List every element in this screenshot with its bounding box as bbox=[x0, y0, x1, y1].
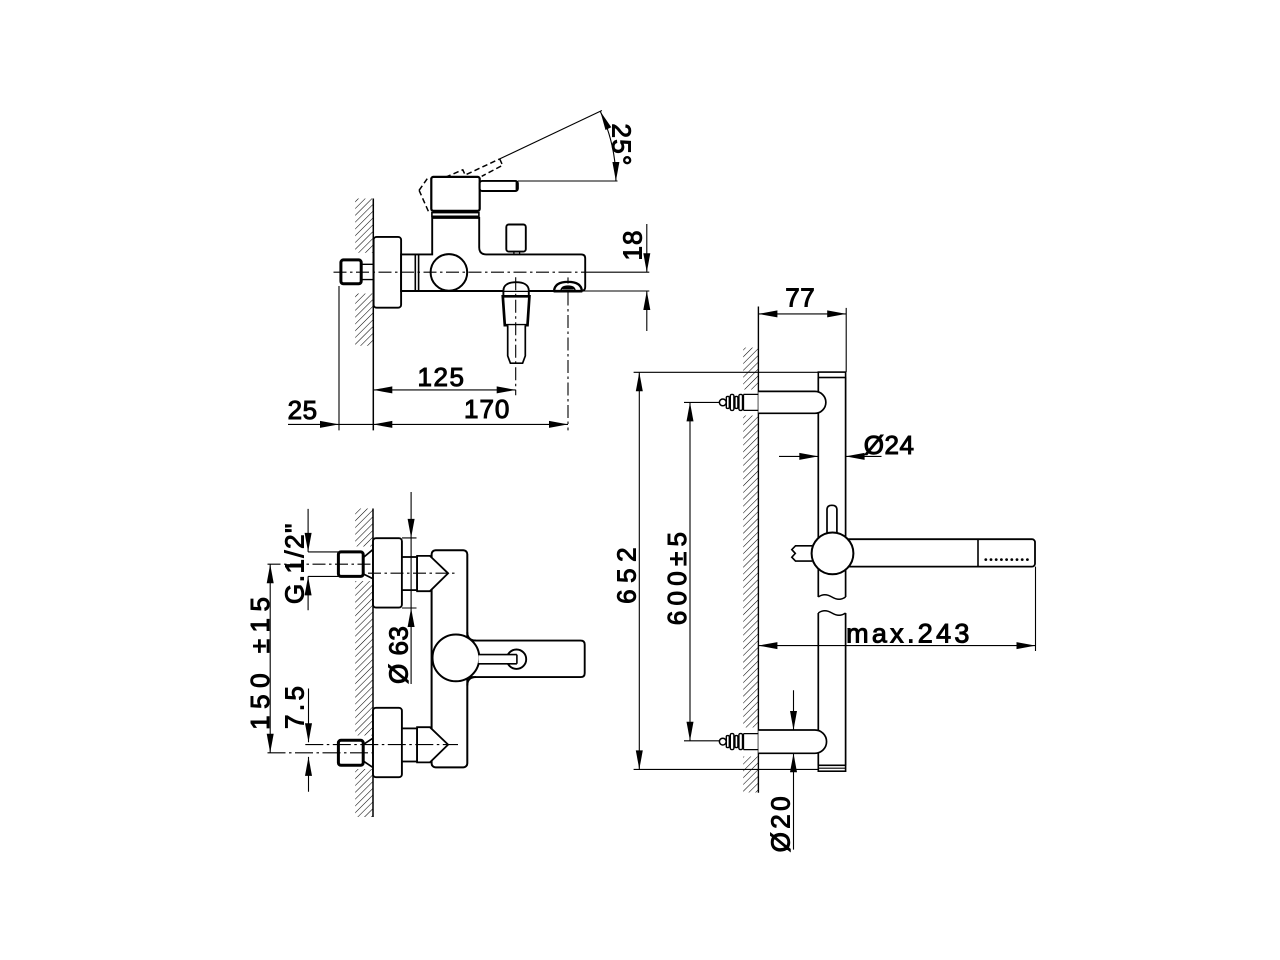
arrow 77 left bbox=[758, 310, 777, 317]
upper body centerline bbox=[368, 572, 458, 574]
upper pipe stub bbox=[402, 557, 417, 590]
arrow angle top bbox=[600, 111, 611, 130]
svg-text:125: 125 bbox=[418, 362, 466, 392]
arrow 150 bottom bbox=[267, 734, 274, 753]
rail left edge bbox=[817, 378, 819, 766]
dimension line 25/170 bbox=[288, 423, 568, 425]
600 extension lines bbox=[684, 402, 719, 740]
hand-shower outlet dome sides bbox=[503, 291, 528, 297]
handle body bbox=[431, 177, 479, 211]
arrow 652 top bbox=[636, 372, 643, 391]
arrow G1/2 top bbox=[305, 533, 312, 552]
upper union nut (view B) bbox=[338, 552, 363, 577]
diverter knob bbox=[506, 225, 526, 252]
valve cap circle bbox=[431, 254, 468, 291]
handle divider line bbox=[977, 539, 979, 566]
dimension line 18 bbox=[646, 224, 648, 331]
7.5 dimension line bbox=[308, 689, 310, 792]
rail top cap bbox=[818, 372, 845, 377]
handle boss circle (view B) bbox=[433, 635, 480, 682]
extension line at union nut bbox=[338, 286, 340, 430]
lower nut centerline bbox=[268, 752, 373, 754]
arrow Ø20 bottom bbox=[790, 753, 797, 772]
horizontal centerline (view A) bbox=[334, 271, 587, 273]
lower screw ridges bbox=[726, 734, 742, 750]
77 right extension line bbox=[845, 308, 847, 372]
upper inlet horn pentagon bbox=[417, 556, 448, 591]
hand-shower vertical centerline bbox=[515, 277, 517, 395]
Ø63 extension lines bbox=[402, 538, 417, 608]
wall hatch top (view B) bbox=[355, 509, 373, 547]
svg-text:25°: 25° bbox=[607, 124, 637, 167]
svg-text:170: 170 bbox=[464, 394, 510, 424]
G1/2 dimension line bbox=[307, 509, 309, 610]
wall hatch bottom (view B) bbox=[355, 769, 373, 817]
arrow Ø63 bottom bbox=[408, 608, 415, 627]
lower inlet horn pentagon bbox=[417, 727, 448, 762]
svg-text:Ø20: Ø20 bbox=[766, 793, 796, 852]
svg-text:G.1/2": G.1/2" bbox=[280, 522, 310, 604]
svg-text:77: 77 bbox=[785, 282, 815, 312]
spout aerator base line bbox=[554, 290, 583, 293]
wall hatch lower (view A) bbox=[355, 294, 373, 346]
lower union nut (view B) bbox=[338, 740, 363, 765]
arrow 150 top bbox=[267, 564, 274, 583]
angle slant line bbox=[500, 111, 602, 159]
aerator vertical centerline bbox=[567, 293, 569, 431]
handle lever bbox=[480, 181, 518, 191]
arrow 170 left bbox=[373, 421, 392, 428]
upper screw ridges bbox=[726, 394, 742, 410]
dimension line 150 bbox=[269, 564, 271, 753]
svg-text:18: 18 bbox=[618, 230, 648, 261]
lower wall plug lines bbox=[744, 734, 759, 750]
arrow max243 left bbox=[758, 642, 777, 649]
dashed rotated handle: lever end and bottom edge bbox=[482, 159, 503, 176]
svg-text:max.243: max.243 bbox=[846, 619, 973, 649]
wall hatch bottom (view C) bbox=[743, 757, 758, 793]
arrow 600 bottom bbox=[687, 722, 694, 741]
svg-text:25: 25 bbox=[288, 395, 318, 425]
supply pipe lower edge bbox=[361, 279, 415, 281]
arrow G1/2 bottom bbox=[305, 576, 312, 595]
Ø24 dimension lines bbox=[779, 455, 882, 457]
652 extension lines bbox=[634, 372, 819, 769]
arrow angle bottom bbox=[612, 162, 619, 181]
upper wall flange (view B) bbox=[373, 538, 402, 607]
angle horizontal line bbox=[518, 180, 618, 182]
dashed rotated handle: bottom-left edge bbox=[419, 190, 429, 213]
dimension line 652 bbox=[638, 372, 640, 769]
G1/2 extension lines bbox=[308, 552, 338, 577]
arrow Ø20 top bbox=[790, 711, 797, 730]
upper screw head circle bbox=[719, 399, 726, 406]
dashed rotated handle: left end edge bbox=[419, 176, 429, 190]
arrow 125 right bbox=[497, 386, 516, 393]
upper inlet taper bbox=[363, 550, 373, 579]
arrow Ø63 top bbox=[408, 519, 415, 538]
bar-body fillets bbox=[467, 632, 476, 685]
aerator centerline tick above dome bbox=[567, 277, 569, 283]
rail right edge bbox=[845, 378, 847, 766]
upper wall plug lines bbox=[744, 394, 759, 410]
dashed rotated handle: body top edge bbox=[446, 159, 500, 177]
svg-text:652: 652 bbox=[612, 541, 642, 604]
supply pipe upper edge bbox=[361, 263, 415, 265]
spout aerator outer dome bbox=[554, 282, 582, 291]
svg-text:7.5: 7.5 bbox=[280, 683, 310, 729]
max243 right extension bbox=[1035, 567, 1037, 651]
svg-text:150 ±15: 150 ±15 bbox=[245, 591, 275, 730]
upper wall bracket arm bbox=[758, 391, 825, 413]
hand-shower outlet cone bbox=[503, 296, 530, 325]
angle arc bbox=[600, 111, 616, 181]
lever escutcheon bar (view B) bbox=[466, 641, 585, 678]
lower wall bracket arm bbox=[758, 730, 826, 753]
arrow 25 right bbox=[320, 421, 339, 428]
lever knob small circle bbox=[507, 650, 526, 669]
mixer body (view B) bbox=[432, 550, 468, 767]
eccentric union nut (view A) bbox=[341, 260, 361, 284]
extension lines for 18 bbox=[583, 272, 650, 291]
lever grip thin bar bbox=[479, 655, 517, 663]
cartridge ring band bbox=[432, 213, 479, 217]
arrow 7.5 bottom bbox=[305, 757, 312, 776]
wall hatch upper (view A) bbox=[355, 199, 373, 253]
arrow Ø24 right bbox=[846, 453, 865, 460]
arrow 652 bottom bbox=[636, 750, 643, 769]
svg-text:Ø24: Ø24 bbox=[864, 430, 915, 460]
spout aerator inner dome bbox=[561, 286, 575, 291]
spout aerator insert bar bbox=[562, 287, 573, 290]
arrow max243 right bbox=[1017, 642, 1036, 649]
arrow 18 top bbox=[643, 253, 650, 272]
wall face line (view B) bbox=[372, 509, 374, 818]
arrow 77 right bbox=[827, 310, 846, 317]
arrow 125 left bbox=[373, 386, 392, 393]
svg-text:600±5: 600±5 bbox=[662, 527, 692, 626]
dimension line 600 bbox=[689, 402, 691, 740]
arrow 170 right bbox=[549, 421, 568, 428]
Ø63 dimension line bbox=[410, 492, 412, 684]
body seam lines bbox=[415, 254, 418, 291]
hand-shower outlet dome bbox=[503, 282, 528, 291]
lever end cap line bbox=[515, 182, 517, 191]
lower inlet taper bbox=[363, 738, 373, 767]
wall hatch middle (view B) bbox=[355, 581, 373, 736]
svg-text:Ø 63: Ø 63 bbox=[383, 626, 413, 684]
wall face line (view C) bbox=[757, 307, 759, 793]
lower body centerline bbox=[305, 744, 458, 746]
rail bottom cap bbox=[818, 765, 845, 771]
lower screw head circle bbox=[719, 738, 726, 745]
arrow 600 top bbox=[687, 402, 694, 421]
lower wall flange (view B) bbox=[373, 708, 402, 777]
hand-shower outlet plug bbox=[508, 325, 526, 363]
mixer body outline (view A) bbox=[401, 218, 585, 291]
upper nut centerline bbox=[268, 563, 373, 565]
wall hatch top (view C) bbox=[743, 348, 758, 390]
hand shower handle bar bbox=[846, 539, 1035, 566]
lower pipe stub bbox=[402, 728, 417, 761]
diverter stem bbox=[514, 252, 520, 255]
spray dots bbox=[984, 558, 1028, 561]
slider circle bbox=[812, 533, 854, 575]
arrow 7.5 top bbox=[305, 723, 312, 742]
rail break wave lower bbox=[818, 611, 845, 616]
Ø20 dimension line bbox=[793, 690, 795, 849]
rail bottom cap inner line bbox=[818, 767, 845, 769]
wall face line (view A) bbox=[372, 199, 374, 431]
wall hatch middle (view C) bbox=[743, 416, 758, 728]
arrow 18 bottom bbox=[643, 291, 650, 310]
dimension 77 line bbox=[758, 313, 846, 315]
rail break wave upper bbox=[818, 595, 845, 600]
dimension line 125 bbox=[373, 389, 515, 391]
wall flange escutcheon (view A) bbox=[374, 237, 402, 308]
max243 dimension line bbox=[758, 645, 1035, 647]
slider lock knob bbox=[827, 505, 837, 532]
hose stub with break bbox=[792, 546, 812, 561]
arrow Ø24 left bbox=[799, 453, 818, 460]
